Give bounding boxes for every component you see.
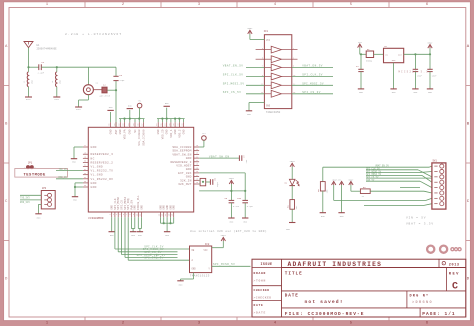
svg-text:RXD_3V3: RXD_3V3 <box>20 201 30 204</box>
svg-text:17: 17 <box>196 174 198 177</box>
capacitor C5 output <box>413 54 423 89</box>
wire X1 shield to ground <box>87 95 89 100</box>
wire SPI_CLK_5V input <box>223 74 265 77</box>
resistor R3 <box>360 186 370 198</box>
connector JP3 serial header <box>41 187 55 209</box>
svg-text:2500AT44M0400E: 2500AT44M0400E <box>37 48 58 51</box>
ground bus2 <box>164 102 170 119</box>
svg-text:SPI_CS_5V: SPI_CS_5V <box>223 91 242 94</box>
svg-text:FILE: CC3000MOD-REV-E: FILE: CC3000MOD-REV-E <box>285 311 365 317</box>
title block title row <box>282 272 466 291</box>
resistor R2 pullup <box>317 167 328 193</box>
svg-text:32: 32 <box>84 168 86 171</box>
wire SPI_MOSI_5V input <box>223 83 265 86</box>
wire fuse to regulator <box>374 53 384 55</box>
svg-text:500mA: 500mA <box>366 59 373 62</box>
svg-text:RESERVED2_3: RESERVED2_3 <box>91 153 114 156</box>
svg-text:37: 37 <box>141 124 144 126</box>
node bus junctions bottom <box>163 222 172 224</box>
wire R1 to ground <box>291 209 293 222</box>
wire SV1 row6 <box>400 187 420 189</box>
wire SPI_CLK_5V <box>366 168 432 177</box>
buffer triangles IC1 <box>261 46 296 97</box>
svg-text:TXD_3V: TXD_3V <box>59 168 68 171</box>
svg-text:GND: GND <box>140 205 143 210</box>
wire regulator out to VBAT <box>404 53 430 55</box>
box TESTMODE <box>15 169 68 178</box>
wire IC2 VCC to VBAT <box>222 241 224 248</box>
connector SV1 <box>432 160 446 209</box>
U1 left pin names <box>91 146 114 189</box>
supply VBAT_EN arrow1 <box>332 178 342 185</box>
wire bottom gnd pair B <box>138 217 141 232</box>
svg-text:VDD_2: VDD_2 <box>178 129 181 137</box>
ground JP3 <box>35 214 41 220</box>
svg-text:REV: REV <box>449 273 460 277</box>
capacitor C10 <box>237 191 253 218</box>
wire VBAT_EN_3V output <box>292 65 333 68</box>
wire VBAT_EN_5V input <box>223 65 265 68</box>
buffer IC1 74AHC4050 body <box>264 30 292 109</box>
svg-text:19: 19 <box>196 166 198 169</box>
wire SPI drops <box>115 217 190 260</box>
capacitor C9 <box>225 191 240 218</box>
wire JP3 pin3 to ground <box>39 203 42 205</box>
supply VBAT LED <box>290 160 296 167</box>
U1 bottom pin names <box>111 195 176 210</box>
svg-text:2.2nH + L-07C2N2SV6T: 2.2nH + L-07C2N2SV6T <box>65 32 122 36</box>
svg-text:SPI_CLK_3V: SPI_CLK_3V <box>302 74 323 77</box>
title block date row <box>282 291 466 308</box>
wire SV1 row8 <box>364 204 424 206</box>
wire C2 to RF line <box>107 89 116 91</box>
ground C5 <box>412 89 418 94</box>
wire R3 to SV1 <box>370 190 424 192</box>
jumper JP1 <box>24 162 35 170</box>
svg-text:DATE: DATE <box>254 304 264 307</box>
supply VBAT IC2 <box>221 234 227 241</box>
svg-text:ANT: ANT <box>115 129 118 134</box>
svg-text:CC3000MOD: CC3000MOD <box>88 217 103 220</box>
svg-text:GND: GND <box>173 205 176 210</box>
wire IC2 gnd <box>193 273 195 279</box>
wire IC1 GND <box>249 102 264 104</box>
ground R2 <box>320 213 326 219</box>
svg-text:GND: GND <box>186 176 192 179</box>
wire TP2 <box>199 146 204 148</box>
wire L1 to ground <box>28 87 30 97</box>
wire TXD_3V <box>56 168 83 171</box>
svg-text:>CHECKED: >CHECKED <box>254 296 272 300</box>
svg-text:22pF: 22pF <box>216 181 219 187</box>
frame row ticks <box>4 86 471 241</box>
svg-text:VBAT: VBAT <box>229 177 235 180</box>
svg-text:SPI_MISO_5V: SPI_MISO_5V <box>213 263 235 266</box>
wire VBAT to IC1 VCC <box>249 34 251 40</box>
svg-text:0.1uF: 0.1uF <box>233 205 240 208</box>
svg-text:GND: GND <box>110 129 113 134</box>
wire VBAT to LED <box>291 167 293 180</box>
svg-text:VBAT: VBAT <box>247 27 253 30</box>
svg-text:JP3: JP3 <box>42 187 47 190</box>
svg-text:c: c <box>443 263 444 265</box>
svg-text:DRAWN: DRAWN <box>254 272 267 275</box>
svg-text:Use internal 32K osc (EXT_32K: Use internal 32K osc (EXT_32K to GND) <box>190 229 267 233</box>
wire feed to X1 <box>87 67 89 84</box>
svg-text:>DRGNO: >DRGNO <box>412 300 433 305</box>
wire U1 pin GND hook top-left <box>74 146 83 148</box>
ground L2 <box>53 97 60 101</box>
wire arrow2 to ground <box>341 185 343 213</box>
svg-text:>DATE: >DATE <box>254 311 267 315</box>
wire U1 GND pins hook left <box>74 183 83 197</box>
node 32k junctions <box>230 190 246 192</box>
IC1 unused input stubs <box>256 50 298 60</box>
svg-text:22: 22 <box>196 155 198 158</box>
svg-text:VL_RS232_RX: VL_RS232_RX <box>91 178 114 181</box>
wire LED to R1 <box>291 186 293 200</box>
svg-text:SPI_CS_3V: SPI_CS_3V <box>302 91 321 94</box>
capacitor C7 <box>239 155 248 164</box>
svg-text:TITLE: TITLE <box>285 272 303 277</box>
svg-text:10uF: 10uF <box>432 75 438 78</box>
U1 right pin names <box>170 146 191 186</box>
title block outline <box>252 259 466 317</box>
svg-text:GND: GND <box>166 129 169 134</box>
wire SPI_CS_3V output <box>292 91 333 94</box>
svg-text:GND: GND <box>54 98 59 101</box>
svg-text:IRQ_5V: IRQ_5V <box>366 179 375 182</box>
wire VBAT 32k stem <box>230 184 232 191</box>
svg-text:GND: GND <box>129 129 132 134</box>
wire L2 to ground <box>56 87 58 97</box>
wire SPI_CS_5V <box>366 176 432 179</box>
fiducial dots <box>451 248 461 251</box>
svg-text:GND: GND <box>91 146 97 149</box>
supply arrow2 <box>339 181 343 185</box>
wire SPI_MISO_5V output <box>212 263 251 266</box>
svg-text:VIO_HOST: VIO_HOST <box>176 165 191 168</box>
svg-text:RESERVED2_3: RESERVED2_3 <box>170 161 191 164</box>
svg-text:VL_GND: VL_GND <box>91 166 103 169</box>
svg-text:SDA_CC3000: SDA_CC3000 <box>172 146 191 149</box>
svg-text:GND: GND <box>26 98 31 101</box>
wire SPI_MISO_5V <box>366 170 432 173</box>
ground bottom2 <box>164 232 170 238</box>
svg-text:VDD_IO: VDD_IO <box>161 129 164 139</box>
svg-text:GND: GND <box>157 129 160 134</box>
svg-text:42: 42 <box>172 124 175 126</box>
svg-text:EXT_32K: EXT_32K <box>178 172 191 175</box>
svg-text:39: 39 <box>159 124 162 126</box>
svg-text:27: 27 <box>84 144 86 147</box>
wire bottom pin1 to ground <box>111 217 113 232</box>
svg-text:32: 32 <box>117 124 120 126</box>
supply VBAT 32k <box>229 177 235 184</box>
title block file row <box>285 308 456 317</box>
svg-text:32K_IN: 32K_IN <box>180 179 192 182</box>
svg-text:DRG Nº: DRG Nº <box>410 295 430 299</box>
title block rev cell <box>447 268 460 293</box>
svg-text:SV1: SV1 <box>433 160 438 163</box>
ground bottomA <box>130 232 136 238</box>
wire arrow1 down right <box>333 185 335 200</box>
U1 top pin names <box>110 129 186 146</box>
supply VBAT regulator <box>427 41 433 48</box>
capacitor C2 antenna match <box>93 84 110 98</box>
svg-text:VBAT_SW_EN: VBAT_SW_EN <box>172 153 191 156</box>
ground C9 <box>228 218 234 224</box>
inductor L1 <box>23 67 34 87</box>
node cap branch <box>360 53 362 55</box>
svg-text:TESTMODE: TESTMODE <box>24 173 46 177</box>
svg-text:VBAT: VBAT <box>427 41 433 44</box>
wire SPI_MOSI_5V <box>366 173 432 182</box>
jumper SJ1 32k <box>199 178 206 185</box>
svg-text:JP1: JP1 <box>28 162 33 165</box>
svg-text:C: C <box>452 281 458 292</box>
wire SPI_CLK_3V output <box>292 74 333 77</box>
title block copyright <box>439 259 460 267</box>
svg-text:VDD_PA: VDD_PA <box>123 129 126 139</box>
ground IC2 <box>177 281 183 287</box>
net labels SPI 3V <box>136 245 165 259</box>
node bus2 junctions <box>161 118 180 120</box>
svg-text:VIN = 5V: VIN = 5V <box>406 217 426 220</box>
svg-text:GND: GND <box>186 157 192 160</box>
svg-text:ANT_MTCH: ANT_MTCH <box>100 95 111 98</box>
ground bottomB <box>137 232 143 238</box>
svg-text:IC2: IC2 <box>205 243 210 246</box>
svg-text:SPI_MOSI_3V: SPI_MOSI_3V <box>302 83 324 86</box>
svg-text:>TOWN: >TOWN <box>254 279 267 283</box>
svg-text:GND: GND <box>174 129 177 134</box>
wire antenna to C1 <box>28 48 30 68</box>
ground pin39 <box>107 106 113 122</box>
ground bottom1 <box>109 232 115 238</box>
svg-text:SCL_CC3000: SCL_CC3000 <box>138 129 141 146</box>
wire RXD_3V3 <box>20 200 41 204</box>
capacitor C6 output <box>427 54 437 89</box>
mounting hole H1 <box>427 246 434 253</box>
svg-text:10uF: 10uF <box>417 75 423 78</box>
ground L1 <box>25 97 32 101</box>
frame row letters <box>5 45 470 282</box>
wire SPI_CS_5V input <box>223 91 265 94</box>
svg-text:VL_GND: VL_GND <box>91 174 103 177</box>
node bus1 junctions <box>123 118 140 120</box>
capacitor C1 <box>38 61 45 74</box>
svg-text:VIN: VIN <box>358 41 363 44</box>
wire TXD_3V3 <box>20 195 41 199</box>
svg-text:29: 29 <box>84 156 86 159</box>
svg-text:PAGE: 1/1: PAGE: 1/1 <box>422 311 455 317</box>
ground arrow2 <box>338 213 344 219</box>
svg-text:VBAT_SW_EN: VBAT_SW_EN <box>209 155 230 158</box>
svg-text:GND: GND <box>192 267 197 270</box>
title block left column <box>252 259 282 317</box>
LED D1 <box>285 179 300 185</box>
svg-text:ADAFRUIT INDUSTRIES: ADAFRUIT INDUSTRIES <box>288 261 383 268</box>
svg-text:not saved!: not saved! <box>305 299 344 305</box>
svg-text:VBAT: VBAT <box>221 234 227 237</box>
ground C6 <box>427 89 433 94</box>
testpoint TP1 <box>137 100 142 119</box>
svg-text:VL_RS232_TX: VL_RS232_TX <box>91 170 114 173</box>
mounting hole H2 <box>440 246 447 253</box>
capacitor C3 <box>113 74 125 82</box>
U1 right pins <box>194 144 199 184</box>
buffer IC2 74AHC1G125 body <box>190 243 212 273</box>
U1 top pins <box>108 122 184 127</box>
svg-text:32K_OUT: 32K_OUT <box>178 183 191 186</box>
frame column numbers <box>46 3 429 325</box>
wire SPI_MOSI_3V output <box>292 83 333 86</box>
wire VBAT_EN_5V to SV1 <box>323 164 432 167</box>
wire VIN to fuse <box>359 48 361 55</box>
supply VBAT arrow3 <box>348 178 354 185</box>
U1 left pins <box>83 144 88 187</box>
svg-text:VBAT_EN_5V: VBAT_EN_5V <box>223 65 244 68</box>
regulator U2 MIC5225 body <box>384 45 404 63</box>
svg-text:NC: NC <box>134 129 137 133</box>
wire regulator gnd <box>393 63 395 89</box>
svg-text:RESERVED2_2: RESERVED2_2 <box>91 161 114 164</box>
frame column ticks <box>85 2 389 321</box>
svg-text:RXD_3V: RXD_3V <box>59 176 68 179</box>
svg-text:CHECKED: CHECKED <box>254 289 270 292</box>
U1 bottom pins <box>109 212 174 217</box>
svg-text:VCC: VCC <box>204 249 209 252</box>
ground C10 <box>242 218 248 224</box>
svg-text:SDA_CC3000: SDA_CC3000 <box>142 129 145 146</box>
wire bottom group2 bus <box>161 217 174 232</box>
resistor R1 <box>287 200 298 210</box>
svg-text:6.2pF: 6.2pF <box>247 205 254 208</box>
svg-text:NC: NC <box>91 157 95 160</box>
svg-text:IC1: IC1 <box>264 30 269 33</box>
svg-text:GND: GND <box>76 108 81 111</box>
svg-text:74AHC4050: 74AHC4050 <box>266 111 281 114</box>
svg-text:GND: GND <box>266 104 271 107</box>
svg-text:GND: GND <box>119 129 122 134</box>
svg-text:GND: GND <box>91 186 97 189</box>
svg-text:VDD_1: VDD_1 <box>170 129 173 137</box>
ground regulator <box>390 89 396 94</box>
svg-text:VBAT: VBAT <box>290 160 296 163</box>
wire VBAT_SW_EN <box>199 155 239 158</box>
svg-text:SPI_CLK_5V: SPI_CLK_5V <box>223 74 244 77</box>
capacitor C8 32k <box>206 178 219 187</box>
title block header <box>282 261 466 268</box>
svg-text:VCC: VCC <box>266 39 271 42</box>
node antenna junction <box>27 66 29 68</box>
wire top bus group1 <box>119 119 145 123</box>
fuse F1 <box>366 48 374 63</box>
note voltage <box>406 217 434 226</box>
ground LED <box>286 223 295 232</box>
supply VBAT IC1 <box>247 27 253 34</box>
ground IC1 <box>246 111 252 116</box>
svg-text:ISSUE: ISSUE <box>261 262 273 266</box>
wire EXT_32K loop <box>199 173 245 191</box>
wire IRQ_5V <box>366 179 432 188</box>
wire C1 to shunt node <box>41 66 116 68</box>
wire arrow3 to R3 <box>350 185 352 191</box>
svg-text:VBAT: VBAT <box>348 178 354 181</box>
svg-text:TXD_3V3: TXD_3V3 <box>20 197 30 200</box>
testpoint TP2 <box>202 132 207 140</box>
svg-text:SDA_EEPROM: SDA_EEPROM <box>172 150 191 153</box>
svg-text:VBAT = 3.3V: VBAT = 3.3V <box>406 223 434 226</box>
antenna E1 <box>24 42 57 51</box>
svg-text:GND: GND <box>183 129 186 134</box>
svg-text:2.2pF: 2.2pF <box>38 72 45 75</box>
IC U1 CC3000 module body <box>88 127 193 212</box>
wire R2 to ground <box>322 191 324 213</box>
svg-text:12pF: 12pF <box>119 79 125 82</box>
svg-text:74AHC1G125: 74AHC1G125 <box>190 275 210 278</box>
svg-text:GND: GND <box>91 182 97 185</box>
wire RXD_3V <box>56 176 83 179</box>
inductor L2 <box>51 67 62 87</box>
svg-text:OUT: OUT <box>398 54 403 57</box>
svg-text:2013: 2013 <box>449 263 460 267</box>
ground U1 left lower <box>72 197 78 202</box>
connector X1 (RF test connector) <box>83 82 98 95</box>
ground C4 <box>358 89 364 94</box>
svg-text:DATE: DATE <box>285 294 299 299</box>
svg-text:GND: GND <box>186 168 192 171</box>
node out junctions <box>414 53 431 55</box>
svg-text:VBAT_EN_3V: VBAT_EN_3V <box>302 65 323 68</box>
ground bus1 <box>127 104 133 118</box>
ground X1 <box>75 107 82 111</box>
supply VIN <box>358 41 363 48</box>
node L2 junction <box>56 66 58 68</box>
svg-text:SPI_IRQ_3V: SPI_IRQ_3V <box>144 257 163 260</box>
wire VBAT stem <box>429 48 431 54</box>
wire bottom gnd pair A <box>131 217 134 232</box>
node RF junction <box>115 89 117 91</box>
svg-text:SPI_MOSI_5V: SPI_MOSI_5V <box>223 83 245 86</box>
SV1 pin pads <box>434 164 444 206</box>
wire top bus group2 <box>157 119 185 123</box>
wire RF vertical <box>115 67 117 76</box>
ground U1 left <box>71 159 77 164</box>
capacitor C4 input <box>356 54 364 89</box>
